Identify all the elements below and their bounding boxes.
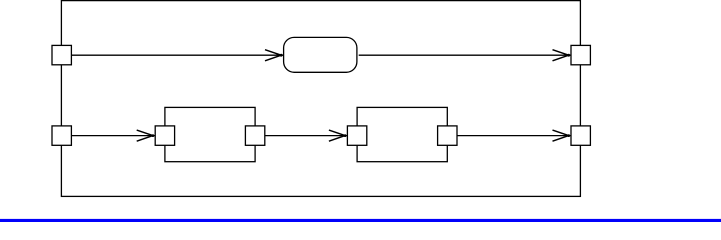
port P2 (frame right, top) [571, 45, 590, 64]
part U2 (inner block) [357, 107, 447, 161]
port P3 (frame left, bottom) [52, 126, 71, 145]
wire: arrow from port P1 to action box [71, 50, 284, 61]
port U2-in (left port of part U2) [347, 126, 366, 145]
port P1 (frame left, top) [52, 45, 71, 64]
component frame (outer block) [61, 1, 580, 197]
port P4 (frame right, bottom) [571, 126, 590, 145]
action node (rounded box) [284, 37, 357, 72]
wire: arrow from part U1 right port to part U2 left port [264, 130, 347, 141]
port U1-out (right port of part U1) [245, 126, 264, 145]
wire: arrow from part U2 right port to port P4 [457, 130, 571, 141]
port U1-in (left port of part U1) [155, 126, 174, 145]
wire: arrow from port P3 to part U1 left port [71, 130, 155, 141]
wire: arrow from action box to port P2 [359, 50, 571, 61]
part U1 (inner block) [165, 107, 255, 161]
blue separator rule (bottom of pane) [0, 219, 721, 222]
port U2-out (right port of part U2) [438, 126, 457, 145]
